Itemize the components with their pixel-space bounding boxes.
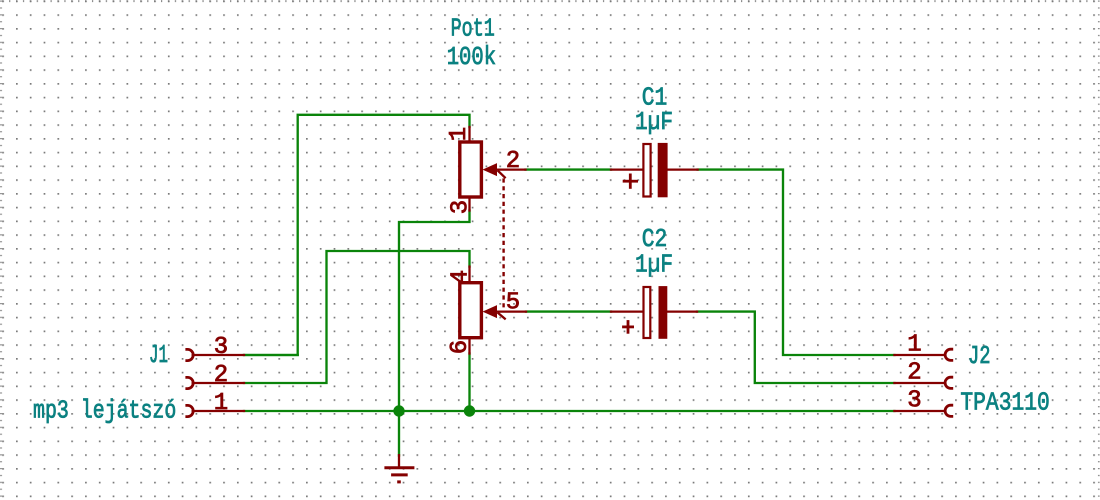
svg-text:2: 2 — [907, 360, 921, 387]
svg-text:3: 3 — [214, 334, 228, 361]
svg-text:J2: J2 — [968, 341, 991, 371]
svg-text:mp3 lejátszó: mp3 lejátszó — [33, 396, 176, 426]
svg-text:2: 2 — [214, 362, 228, 389]
svg-text:TPA3110: TPA3110 — [960, 388, 1049, 418]
svg-text:4: 4 — [448, 270, 475, 284]
svg-text:1µF: 1µF — [635, 250, 673, 280]
svg-text:6: 6 — [447, 340, 474, 354]
svg-text:3: 3 — [907, 388, 921, 415]
svg-text:1: 1 — [214, 390, 228, 417]
svg-text:2: 2 — [506, 148, 520, 175]
svg-text:J1: J1 — [149, 340, 168, 370]
svg-text:3: 3 — [448, 200, 475, 214]
svg-text:1: 1 — [907, 332, 921, 359]
svg-text:5: 5 — [506, 290, 520, 317]
svg-text:Pot1: Pot1 — [451, 13, 495, 43]
svg-text:1µF: 1µF — [635, 107, 673, 137]
svg-text:1: 1 — [446, 127, 473, 141]
svg-text:100k: 100k — [447, 42, 496, 72]
